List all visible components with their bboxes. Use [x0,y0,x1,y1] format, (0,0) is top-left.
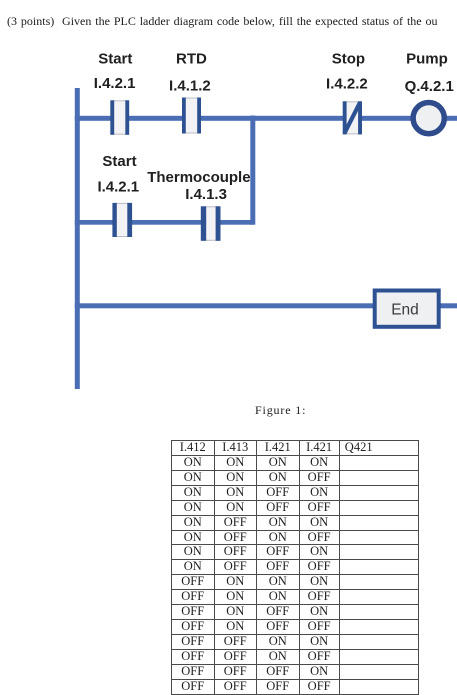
wire rung 2 [75,220,254,225]
ladder diagram figure [0,0,457,430]
figure caption [255,403,306,418]
svg-text:I.4.1.3: I.4.1.3 [185,186,227,203]
contact Stop I.4.2.2 normally-closed (rung 1) [343,101,362,134]
wire junction vertical (rung2 to rung1) [250,116,255,225]
label Q.4.2.1 [405,78,454,95]
label Start (rung2) [102,153,136,170]
contact Start I.4.2.1 (rung 2) [112,203,132,237]
coil Pump Q.4.2.1 [413,103,444,134]
truth table [171,440,419,695]
svg-text:Start: Start [98,50,132,67]
svg-text:End: End [391,302,419,319]
contact Thermocouple I.4.1.3 (rung 2) [201,206,221,241]
label Thermocouple [147,169,250,186]
label I.4.1.3 [185,186,227,203]
label RTD [176,51,207,68]
svg-text:I.4.1.2: I.4.1.2 [169,78,211,95]
contact RTD I.4.1.2 (rung 1) [182,98,201,134]
label I.4.1.2 [169,78,211,95]
svg-text:I.4.2.2: I.4.2.2 [326,76,368,93]
wire rung 3 [75,303,457,308]
End block [375,291,439,327]
svg-text:Thermocouple: Thermocouple [147,169,250,186]
label I.4.2.1 (rung2) [97,179,139,196]
svg-text:Start: Start [102,153,136,170]
contact Start I.4.2.1 (rung 1) [110,100,129,135]
svg-text:I.4.2.1: I.4.2.1 [94,75,136,92]
wire rung 1 [75,116,457,121]
svg-text:RTD: RTD [176,51,207,68]
label Pump [406,51,448,68]
label I.4.2.2 [326,76,368,93]
svg-text:Pump: Pump [406,51,448,68]
label Start (rung1) [98,50,132,67]
svg-text:Q.4.2.1: Q.4.2.1 [405,78,454,95]
problem statement text [7,14,438,29]
svg-text:Stop: Stop [332,51,365,68]
label I.4.2.1 (rung1) [94,75,136,92]
svg-text:I.4.2.1: I.4.2.1 [97,179,139,196]
left power rail [75,88,80,389]
label Stop [332,51,365,68]
